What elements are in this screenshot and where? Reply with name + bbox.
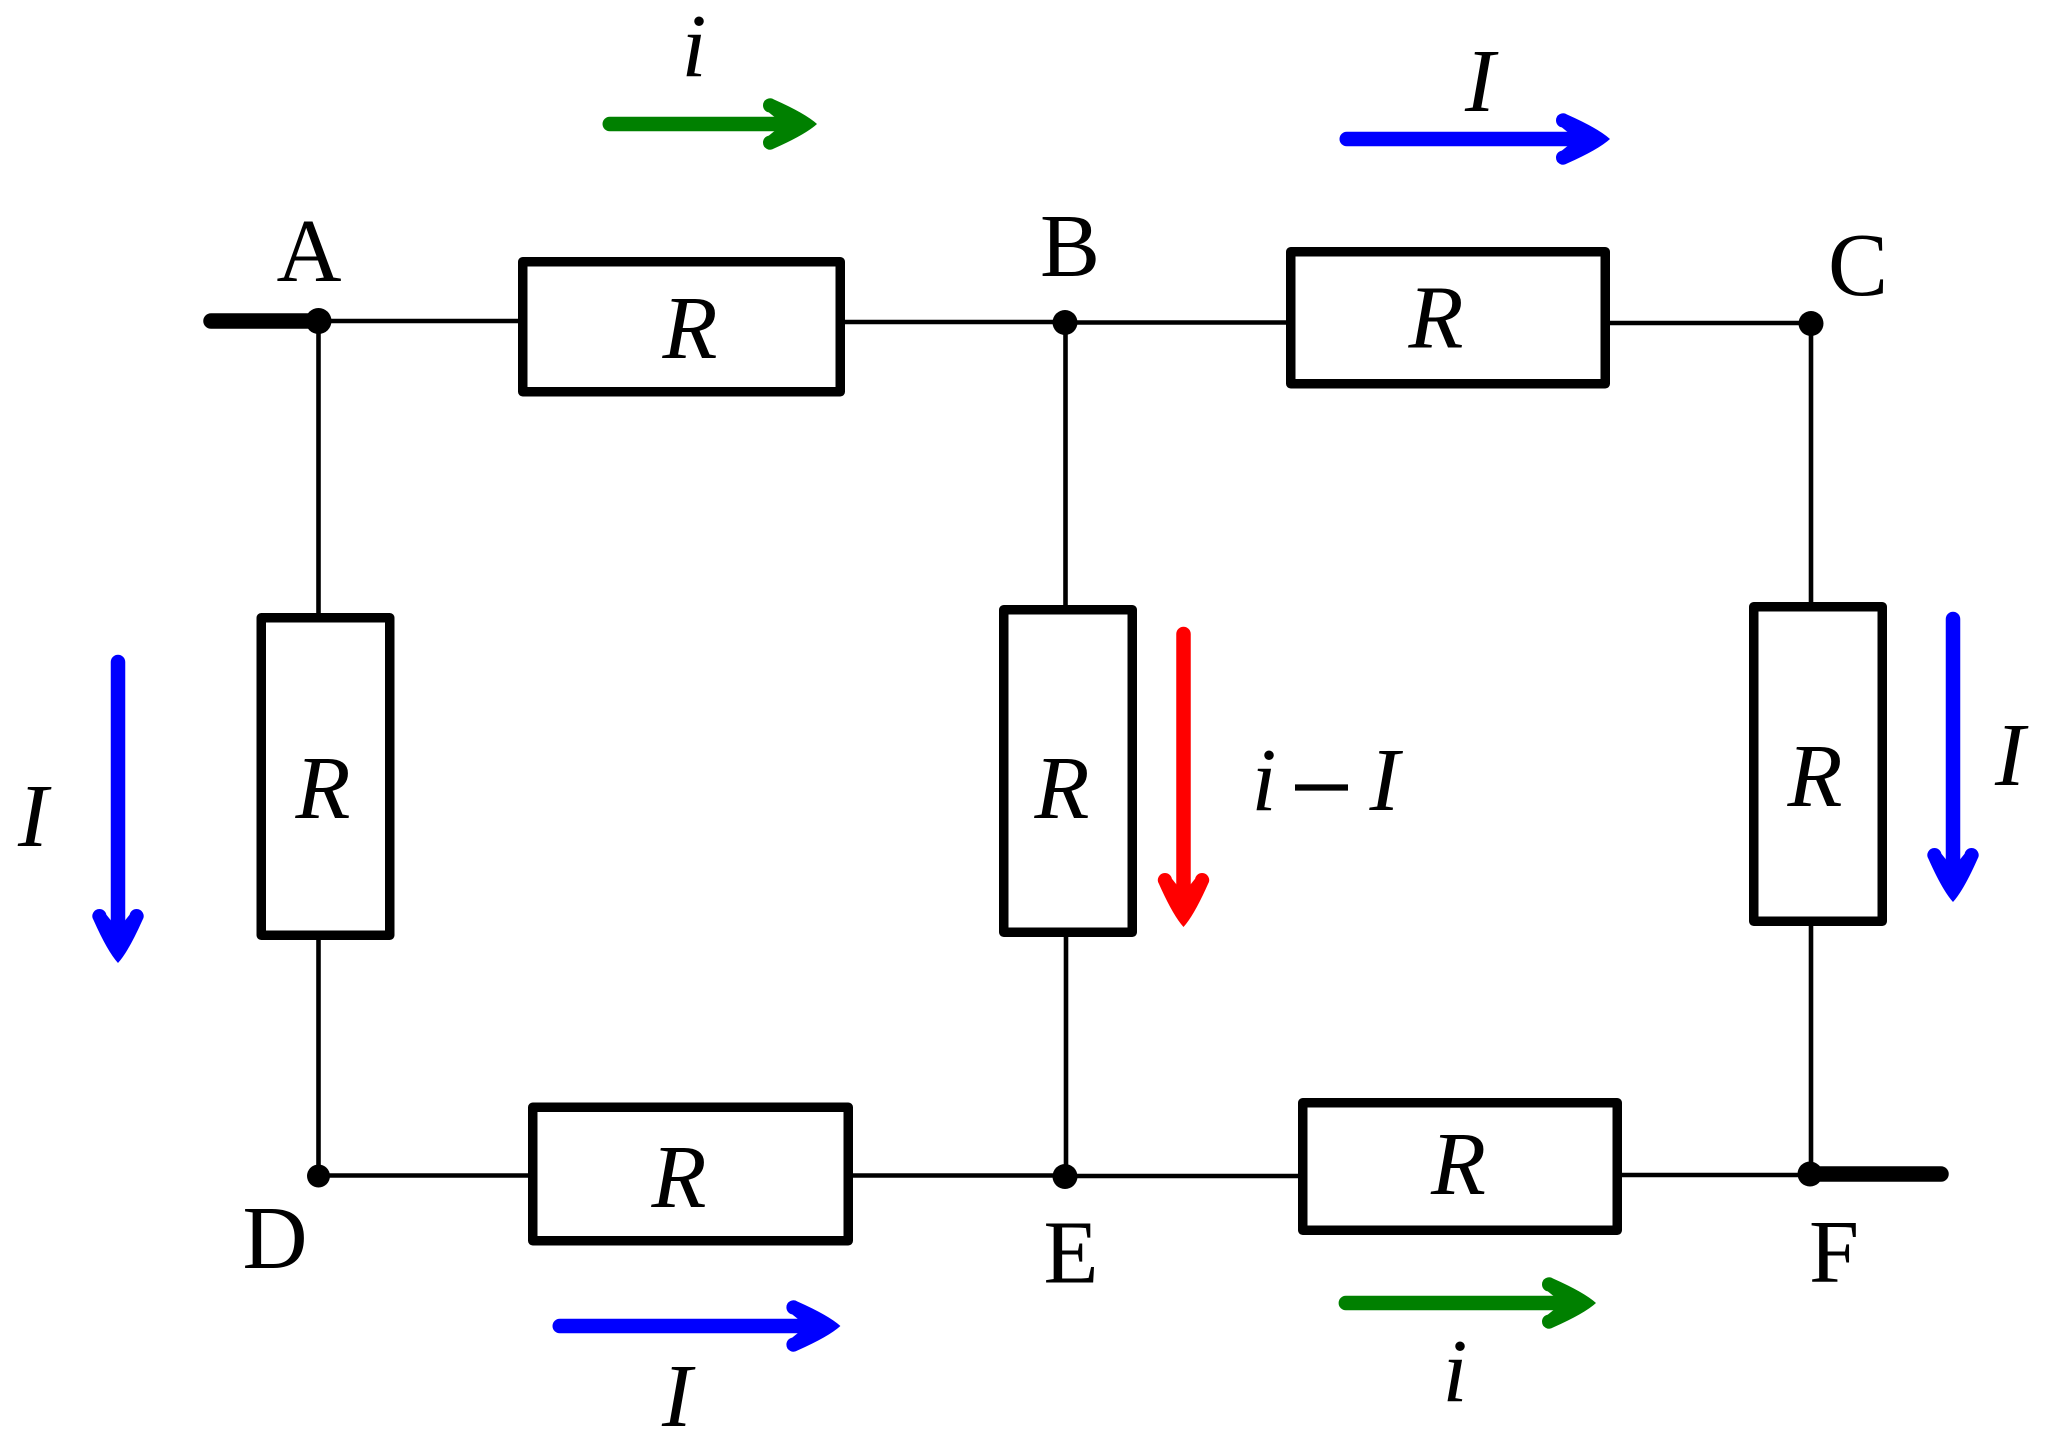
node E [1053,1164,1078,1189]
svg-text:R: R [1430,1115,1486,1214]
wire R5 to node F [1809,925,1814,1174]
svg-text:R: R [1034,739,1090,838]
svg-text:F: F [1809,1203,1859,1302]
resistor R2 (B-C) [1291,252,1606,384]
resistor R1 (A-B) [523,262,841,392]
current arrow I (left, blue, down) [92,662,143,963]
current arrow I (bottom left, blue) [560,1300,841,1351]
node D [307,1165,330,1188]
left terminal stub at A [211,313,316,329]
wire A down to R3 [316,321,321,614]
resistor R5 (C-F) [1754,607,1883,922]
resistor R7 (E-F) [1303,1103,1618,1231]
svg-text:D: D [243,1189,308,1288]
current arrow i (top, green) [610,98,817,149]
wire R7 to node F [1621,1173,1810,1178]
current arrow I (top right, blue) [1347,113,1610,164]
svg-text:I: I [661,1347,696,1435]
wire R1 to node B [844,320,1065,325]
svg-text:R: R [295,739,351,838]
wire A to R1 [319,319,520,324]
svg-text:E: E [1044,1204,1099,1303]
svg-text:R: R [1787,727,1843,826]
wire D to R6 [319,1173,530,1178]
svg-text:i: i [1442,1322,1467,1421]
current arrow I (right, blue, down) [1927,619,1978,902]
svg-text:B: B [1040,197,1100,296]
svg-text:i: i [1251,731,1276,830]
node F [1798,1162,1823,1187]
wire R3 to node D [316,939,321,1176]
node C [1799,311,1824,336]
wire B down to R4 [1063,323,1068,607]
wire R4 to node E [1064,936,1069,1176]
svg-text:I: I [1994,706,2029,805]
right terminal stub at F [1812,1166,1941,1182]
wire C down to R5 [1809,323,1814,603]
svg-text:I: I [1369,731,1404,830]
current arrow i-I (middle, red, down) [1158,634,1209,927]
wire E to R7 [1065,1174,1299,1179]
resistor R6 (D-E) [533,1107,849,1241]
wire R6 to node E [852,1173,1065,1178]
svg-text:C: C [1828,216,1888,315]
wire R2 to node C [1609,321,1811,326]
resistor R4 (B-E) [1004,610,1133,933]
svg-text:R: R [1408,269,1464,368]
resistor R3 (A-D) [261,618,390,936]
svg-text:i: i [681,0,706,96]
wire B to R2 [1065,320,1287,325]
svg-text:A: A [277,202,342,301]
current arrow i (bottom right, green) [1346,1277,1596,1328]
node B [1053,310,1078,335]
svg-text:I: I [17,767,52,866]
svg-text:R: R [662,279,718,378]
svg-text:I: I [1464,32,1499,131]
svg-text:R: R [651,1128,707,1227]
node A [306,308,332,334]
